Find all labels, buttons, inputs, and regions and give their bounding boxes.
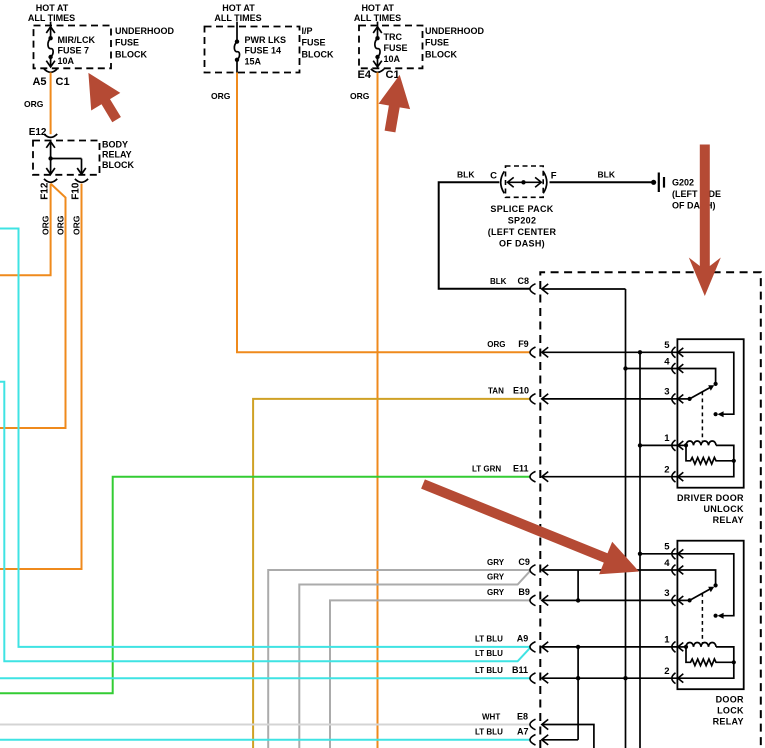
svg-text:4: 4 — [664, 356, 670, 367]
wire BLK to splice — [439, 182, 531, 288]
svg-text:F10: F10 — [71, 182, 82, 200]
svg-text:G202: G202 — [672, 177, 694, 187]
wire ORG F10 — [0, 184, 82, 569]
svg-text:FUSE: FUSE — [115, 38, 139, 48]
svg-text:E4: E4 — [358, 69, 372, 81]
connector E10 label — [488, 386, 529, 396]
svg-text:LT BLU: LT BLU — [475, 728, 503, 737]
fuse TRC element — [373, 22, 382, 67]
svg-text:5: 5 — [664, 340, 670, 351]
svg-text:BLOCK: BLOCK — [115, 49, 147, 59]
svg-text:GRY: GRY — [487, 572, 505, 581]
connector F9 — [530, 347, 548, 358]
wire LT GRN E11 — [0, 477, 530, 694]
connector C9 label — [487, 557, 530, 567]
wire ORG F12 branch 1 — [0, 184, 51, 276]
connector C8 — [530, 284, 548, 295]
connector F9 label — [487, 339, 528, 349]
fuse 14 value label — [245, 35, 287, 66]
wire LT BLU mid — [0, 382, 530, 662]
svg-text:SPLICE PACK: SPLICE PACK — [490, 204, 553, 214]
connector A7 — [530, 735, 548, 746]
wire label ORG 1 — [24, 99, 44, 109]
wire unlock pin1 feed — [638, 443, 678, 447]
svg-text:ORG: ORG — [487, 340, 505, 349]
body relay block internals — [46, 142, 86, 175]
wire GRY C9 — [268, 570, 530, 748]
svg-text:ORG: ORG — [41, 215, 51, 235]
connector E8 — [530, 719, 548, 730]
fuse F14 element — [234, 22, 239, 73]
connector B11 — [530, 673, 548, 684]
svg-text:DOOR: DOOR — [716, 694, 744, 704]
svg-text:C1: C1 — [56, 76, 70, 88]
svg-text:5: 5 — [664, 542, 670, 553]
svg-text:B9: B9 — [518, 587, 530, 597]
svg-text:BLOCK: BLOCK — [425, 49, 457, 59]
svg-text:RELAY: RELAY — [713, 716, 744, 726]
wire junction vertical 578 — [577, 647, 579, 740]
svg-text:15A: 15A — [245, 56, 262, 66]
svg-text:MIR/LCK: MIR/LCK — [58, 35, 96, 45]
wire unlock pin4 feed — [623, 366, 678, 370]
underhood fuse block label 1 — [115, 26, 175, 59]
svg-text:ORG: ORG — [56, 215, 66, 235]
hot at all times label (fuse 7) — [28, 3, 75, 23]
wire B11 inside — [542, 676, 678, 680]
underhood fuse block label 2 — [425, 26, 485, 59]
wire BLK C8 inside — [542, 288, 626, 290]
svg-text:C8: C8 — [518, 276, 530, 286]
wire node line A (BLK) — [625, 289, 627, 748]
svg-text:3: 3 — [664, 588, 669, 599]
wire LT BLU B11 — [0, 677, 530, 679]
svg-text:A5: A5 — [32, 76, 46, 88]
svg-text:A7: A7 — [517, 727, 529, 737]
svg-text:FUSE 14: FUSE 14 — [245, 46, 282, 56]
wire WHT E8 — [0, 724, 530, 726]
svg-text:ALL TIMES: ALL TIMES — [214, 13, 261, 23]
svg-text:2: 2 — [664, 666, 669, 677]
svg-text:1: 1 — [664, 433, 670, 444]
wire ORG F12 branch 2 — [0, 184, 66, 428]
body relay block box — [33, 141, 100, 175]
svg-text:HOT AT: HOT AT — [36, 3, 69, 13]
wire label GRY (unlabeled) — [487, 572, 505, 581]
svg-text:UNDERHOOD: UNDERHOOD — [115, 26, 175, 36]
wire label ORG 3 — [350, 91, 370, 101]
svg-text:UNLOCK: UNLOCK — [704, 504, 744, 514]
door lock relay label — [713, 694, 744, 726]
svg-text:BLOCK: BLOCK — [102, 160, 134, 170]
svg-text:ORG: ORG — [24, 99, 44, 109]
svg-text:C: C — [490, 170, 497, 181]
splice pack SP202 — [490, 166, 557, 197]
wire E8 inside — [542, 725, 594, 748]
svg-text:10A: 10A — [384, 54, 401, 64]
wire GRY B9 — [330, 600, 530, 748]
connector E11 label — [472, 464, 529, 474]
wire F9 inside — [542, 350, 678, 354]
connector B11 label — [475, 665, 528, 675]
red annotation arrow 4 (lock relay) — [421, 479, 639, 574]
wire BLK to ground — [550, 181, 653, 183]
svg-text:E8: E8 — [517, 711, 528, 721]
wire node line B (ORG feed) — [639, 352, 641, 748]
hot at all times label (TRC) — [354, 3, 401, 23]
fuse F7 element — [46, 22, 55, 67]
svg-text:ORG: ORG — [350, 91, 370, 101]
wire A7 inside — [542, 739, 578, 741]
svg-text:E11: E11 — [513, 464, 529, 474]
svg-text:LT BLU: LT BLU — [475, 666, 503, 675]
wire LT BLU A7 — [0, 739, 530, 741]
svg-text:DRIVER DOOR: DRIVER DOOR — [677, 493, 744, 503]
svg-text:B11: B11 — [512, 665, 528, 675]
connector A7 label — [475, 727, 529, 737]
svg-text:SP202: SP202 — [508, 216, 537, 226]
svg-text:E12: E12 — [29, 127, 47, 138]
relay door lock (K-lock) — [664, 541, 743, 690]
svg-text:RELAY: RELAY — [713, 515, 744, 525]
svg-text:GRY: GRY — [487, 558, 505, 567]
svg-text:ALL TIMES: ALL TIMES — [28, 13, 75, 23]
svg-text:(LEFT SIDE: (LEFT SIDE — [672, 189, 721, 199]
connector B9 — [530, 595, 548, 606]
fuse 7 value label — [58, 35, 96, 66]
svg-text:WHT: WHT — [482, 712, 500, 721]
svg-text:E10: E10 — [513, 386, 529, 396]
svg-text:HOT AT: HOT AT — [222, 3, 255, 13]
wire LT BLU A9 — [0, 229, 530, 647]
connector B9 label — [487, 587, 530, 597]
svg-text:A9: A9 — [517, 634, 529, 644]
svg-text:ORG: ORG — [211, 91, 231, 101]
door module dashed box — [540, 272, 761, 748]
svg-text:ORG: ORG — [72, 215, 82, 235]
red annotation arrow 2 (TRC fuse) — [379, 75, 411, 132]
wire label ORG rotated 2 — [56, 215, 66, 235]
wire B9 inside — [542, 598, 678, 602]
svg-text:OF DASH): OF DASH) — [499, 239, 545, 249]
svg-text:FUSE: FUSE — [384, 43, 408, 53]
svg-text:F9: F9 — [518, 339, 529, 349]
wire label ORG rotated 1 — [41, 215, 51, 235]
connector E4/C1 — [358, 69, 400, 81]
connector A9 label — [475, 634, 528, 644]
svg-text:LT BLU: LT BLU — [475, 635, 503, 644]
svg-text:RELAY: RELAY — [102, 150, 132, 160]
svg-text:BLK: BLK — [598, 170, 616, 180]
connector E10 — [530, 394, 548, 405]
connector C8 label — [490, 276, 529, 286]
connector F10 — [71, 179, 89, 200]
svg-text:LT BLU: LT BLU — [475, 649, 503, 658]
wire label BLK right — [598, 170, 616, 180]
svg-text:(LEFT CENTER: (LEFT CENTER — [488, 227, 557, 237]
svg-text:PWR LKS: PWR LKS — [245, 35, 287, 45]
svg-text:4: 4 — [664, 558, 670, 569]
svg-text:FUSE: FUSE — [302, 38, 326, 48]
connector E8 label — [482, 711, 528, 721]
wire TAN E10 — [253, 399, 530, 748]
wire A9 inside — [542, 645, 678, 649]
svg-text:F: F — [551, 170, 557, 181]
svg-text:FUSE: FUSE — [425, 38, 449, 48]
splice pack label — [488, 204, 557, 249]
svg-text:BODY: BODY — [102, 140, 128, 150]
fuse TRC value label — [384, 32, 408, 64]
wire ORG fuse14 to F9 — [237, 73, 530, 353]
connector C9 — [530, 565, 548, 576]
underhood fuse block box 2 — [359, 26, 423, 69]
relay driver door unlock (K-unlock) — [664, 339, 743, 488]
red annotation arrow 1 (fuse 7) — [88, 73, 121, 122]
wire E10 inside — [542, 398, 678, 400]
ip fuse block label — [302, 26, 334, 59]
wire ORG fuse7 to E12 — [50, 72, 52, 134]
svg-text:F12: F12 — [40, 182, 51, 200]
underhood fuse block box 1 — [34, 26, 112, 69]
connector A9 — [530, 642, 548, 653]
wire lock pin5 feed — [638, 552, 678, 556]
wire E11 inside — [542, 476, 678, 478]
svg-text:HOT AT: HOT AT — [361, 3, 394, 13]
svg-text:10A: 10A — [58, 56, 75, 66]
wire GRY mid — [299, 571, 530, 748]
ground G202 symbol — [651, 173, 664, 193]
ground G202 label — [672, 177, 721, 210]
svg-text:GRY: GRY — [487, 588, 505, 597]
svg-text:2: 2 — [664, 465, 669, 476]
svg-text:LOCK: LOCK — [717, 705, 744, 715]
wire C9 inside — [542, 570, 678, 600]
connector A5/C1 — [32, 69, 69, 88]
wire ORG TRC — [377, 72, 379, 748]
svg-text:1: 1 — [664, 635, 670, 646]
wire label ORG rotated 3 — [72, 215, 82, 235]
ip fuse block box — [205, 27, 300, 73]
svg-text:UNDERHOOD: UNDERHOOD — [425, 26, 485, 36]
svg-text:LT GRN: LT GRN — [472, 465, 501, 474]
svg-text:ALL TIMES: ALL TIMES — [354, 13, 401, 23]
connector E12 — [29, 127, 57, 138]
svg-text:FUSE 7: FUSE 7 — [58, 46, 90, 56]
connector F12 — [40, 179, 58, 200]
wire label LT BLU (unlabeled) — [475, 649, 503, 658]
svg-text:TRC: TRC — [384, 32, 403, 42]
connector E11 — [530, 471, 548, 482]
svg-text:3: 3 — [664, 387, 669, 398]
wire label ORG 2 — [211, 91, 231, 101]
svg-text:I/P: I/P — [302, 26, 313, 36]
wire label BLK left — [457, 170, 475, 180]
svg-text:BLOCK: BLOCK — [302, 49, 334, 59]
svg-text:C9: C9 — [518, 557, 530, 567]
svg-text:BLK: BLK — [457, 170, 475, 180]
hot at all times label (fuse 14) — [214, 3, 261, 23]
red annotation arrow 3 (module top) — [689, 145, 721, 297]
body relay block label — [102, 140, 134, 171]
driver door unlock relay label — [677, 493, 744, 525]
svg-text:BLK: BLK — [490, 277, 507, 286]
svg-text:TAN: TAN — [488, 387, 504, 396]
